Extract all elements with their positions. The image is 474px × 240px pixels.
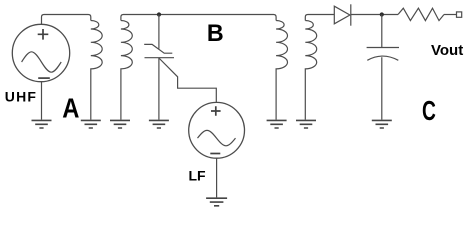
svg-text:A: A	[62, 92, 79, 124]
ground under LF	[206, 198, 227, 206]
variable capacitor top plate arm	[144, 44, 172, 53]
inductor L4	[305, 21, 316, 120]
resistor R1	[398, 8, 444, 20]
capacitor C1 curved plate	[367, 56, 398, 60]
wire UHF bottom to ground	[41, 82, 43, 120]
wire rail C from L4 to diode	[305, 15, 334, 21]
svg-text:C: C	[422, 97, 436, 127]
junction node at detector output	[380, 12, 384, 16]
inductor L2	[121, 21, 132, 120]
inductor L3	[276, 21, 287, 120]
AC source LF	[189, 102, 245, 158]
wire variable capacitor to LF source	[159, 58, 216, 103]
ground under L3	[267, 120, 287, 128]
output terminal square	[457, 12, 462, 17]
inductor L1	[91, 21, 102, 120]
UHF source plus sign	[38, 29, 49, 40]
wire resistor to output terminal	[444, 14, 457, 16]
capacitor C1 top plate	[367, 47, 399, 49]
ground under L2	[110, 120, 130, 128]
variable capacitor bottom plate	[145, 57, 175, 59]
ground under capacitor C1	[372, 120, 392, 128]
LF source minus sign	[210, 153, 220, 155]
wire capacitor to ground	[381, 57, 383, 119]
svg-text:Vout: Vout	[431, 42, 463, 59]
ground under L1	[81, 120, 101, 128]
ground under L4	[296, 120, 316, 128]
wire LF bottom to ground	[216, 158, 218, 197]
LF source sine wave	[198, 130, 236, 145]
wire junction down to capacitor C1	[381, 15, 383, 48]
svg-text:LF: LF	[189, 168, 207, 184]
wire rail B from L2 to L3	[121, 15, 276, 21]
wire variable capacitor to ground	[158, 58, 160, 120]
AC source UHF	[12, 24, 69, 81]
UHF source sine wave	[22, 52, 62, 72]
svg-text:B: B	[207, 21, 224, 47]
LF source plus sign	[211, 106, 221, 116]
ground under UHF	[32, 120, 52, 128]
diode D1 cathode bar	[350, 4, 352, 25]
UHF source minus sign	[38, 77, 50, 79]
wire junction down to variable capacitor	[158, 15, 160, 49]
wire diode to junction	[351, 14, 398, 16]
junction node on rail B	[157, 12, 161, 16]
wire UHF top to coil L1	[42, 15, 91, 25]
svg-text:UHF: UHF	[5, 88, 37, 104]
diode D1 triangle	[334, 6, 350, 24]
ground under variable capacitor	[149, 120, 169, 128]
